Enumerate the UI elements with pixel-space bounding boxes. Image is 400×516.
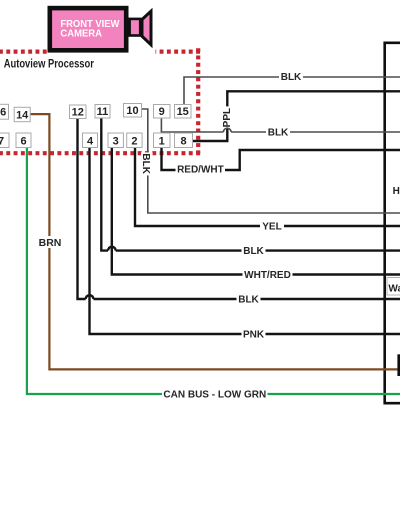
svg-text:PPL: PPL <box>222 108 233 127</box>
pin 6 (bottom row) <box>16 133 31 148</box>
wire BRN pin14 to connector stub <box>30 114 397 369</box>
wire BLK pin12 to head unit (hop over pin4 wire) <box>78 119 86 300</box>
head unit box (right, cut off) <box>385 43 400 403</box>
svg-text:12: 12 <box>72 106 84 118</box>
pin 7 (bottom row, cut) <box>0 133 9 148</box>
pin 1 <box>154 133 171 148</box>
pin 15 <box>175 105 192 119</box>
label Wa... box <box>387 278 400 296</box>
pin 3 <box>108 133 123 148</box>
svg-text:YEL: YEL <box>262 222 281 233</box>
svg-text:BRN: BRN <box>39 237 62 249</box>
svg-text:2: 2 <box>131 135 137 147</box>
black connector stub <box>397 354 400 376</box>
svg-text:6: 6 <box>0 107 6 119</box>
svg-text:BLK: BLK <box>238 295 259 306</box>
svg-text:BLK: BLK <box>140 153 151 174</box>
pin 8 <box>175 133 193 148</box>
wire YEL pin2 to head unit <box>135 148 400 227</box>
svg-text:7: 7 <box>0 135 4 147</box>
pin 4 <box>83 133 98 148</box>
pin 10 <box>124 104 142 118</box>
svg-text:8: 8 <box>180 135 186 147</box>
pin 11 <box>95 105 110 119</box>
svg-text:6: 6 <box>20 135 26 147</box>
wire PNK pin4 to head unit <box>90 148 400 335</box>
wire BLK pin11 to head unit (hop over pin3 wire) <box>101 118 108 251</box>
svg-text:4: 4 <box>87 135 94 147</box>
Autoview Processor dashed enclosure <box>0 48 200 155</box>
wire RED/WHT pin1 to head unit <box>162 148 400 171</box>
pin 9 <box>154 105 171 119</box>
svg-text:10: 10 <box>126 105 138 117</box>
svg-text:3: 3 <box>113 135 119 147</box>
svg-text:Wa: Wa <box>388 284 400 295</box>
svg-text:PNK: PNK <box>243 330 265 341</box>
pin 2 <box>127 133 142 148</box>
wire BLK pin9 to head unit (with hop at PPL) <box>161 118 223 132</box>
svg-text:14: 14 <box>16 110 29 122</box>
svg-text:BLK: BLK <box>281 72 302 83</box>
wire PPL pin8 to head unit <box>193 128 228 141</box>
svg-text:BLK: BLK <box>268 128 289 139</box>
front view camera <box>47 0 156 55</box>
svg-text:He: He <box>393 186 400 197</box>
svg-text:15: 15 <box>177 106 189 118</box>
pin 14 <box>14 107 30 121</box>
svg-text:RED/WHT: RED/WHT <box>177 165 224 176</box>
wire WHT/RED pin3 to head unit <box>112 148 400 275</box>
svg-text:CAN BUS - LOW GRN: CAN BUS - LOW GRN <box>163 390 266 401</box>
svg-text:Autoview Processor: Autoview Processor <box>4 58 95 70</box>
wire BLK pin15 to head unit <box>184 77 400 105</box>
wire BLK pin10 to head unit (vertical BLK label) <box>142 109 400 213</box>
svg-text:9: 9 <box>159 106 165 118</box>
svg-text:BLK: BLK <box>243 246 264 257</box>
pin 12 <box>70 105 87 119</box>
svg-text:1: 1 <box>159 135 165 147</box>
svg-text:CAMERA: CAMERA <box>60 29 102 40</box>
svg-text:WHT/RED: WHT/RED <box>244 270 291 281</box>
wire CAN BUS LOW GRN pin6 to head unit <box>27 148 400 395</box>
pin 6 (top row, cut) <box>0 104 9 119</box>
svg-text:11: 11 <box>97 106 109 118</box>
